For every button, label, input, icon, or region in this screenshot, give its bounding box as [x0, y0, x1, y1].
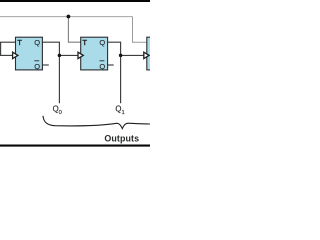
overline of U2 Qbar	[100, 60, 105, 62]
svg-text:T: T	[17, 38, 22, 47]
flip-flop U2 body	[81, 37, 108, 70]
node: junction dot Q0	[58, 54, 62, 58]
wire: rail drop to U2 T input	[68, 17, 80, 43]
flip-flop U2 clock wedge	[78, 52, 83, 58]
svg-text:Q: Q	[99, 38, 105, 47]
overline of U1 Qbar	[34, 60, 39, 62]
svg-text:Q: Q	[99, 62, 105, 71]
svg-text:Outputs: Outputs	[104, 134, 139, 144]
node: rail junction dot	[67, 15, 71, 19]
wire: U1 clock input	[0, 54, 13, 56]
wire: Q0 branch to U2 clock	[59, 54, 78, 56]
brace under outputs	[43, 116, 150, 129]
flip-flop U1 clock wedge	[13, 52, 18, 58]
flip-flop U3 body (clipped at right edge)	[147, 37, 153, 70]
flip-flop U1 body	[16, 37, 43, 70]
wire: U1 Q output down to Q0	[42, 42, 59, 103]
bottom frame bar	[0, 145, 150, 147]
svg-text:T: T	[82, 38, 87, 47]
wire: Q1 branch to U3 clock	[121, 54, 144, 56]
wire: input tie at left edge	[0, 42, 2, 55]
wire: U1 T input	[0, 41, 16, 43]
svg-text:Q: Q	[34, 62, 40, 71]
wire: U1 Qbar stub	[42, 64, 48, 66]
node: junction dot Q1	[119, 54, 123, 58]
wire: U2 Q output down to Q1	[108, 42, 121, 103]
flip-flop U3 clock wedge	[144, 52, 149, 58]
svg-text:Q: Q	[34, 38, 40, 47]
wire: clock rail (gray, top)	[0, 16, 133, 18]
wire: U2 Qbar stub	[108, 64, 114, 66]
top frame bar	[0, 0, 150, 2]
wire: rail drop to U3 T input	[133, 17, 147, 43]
